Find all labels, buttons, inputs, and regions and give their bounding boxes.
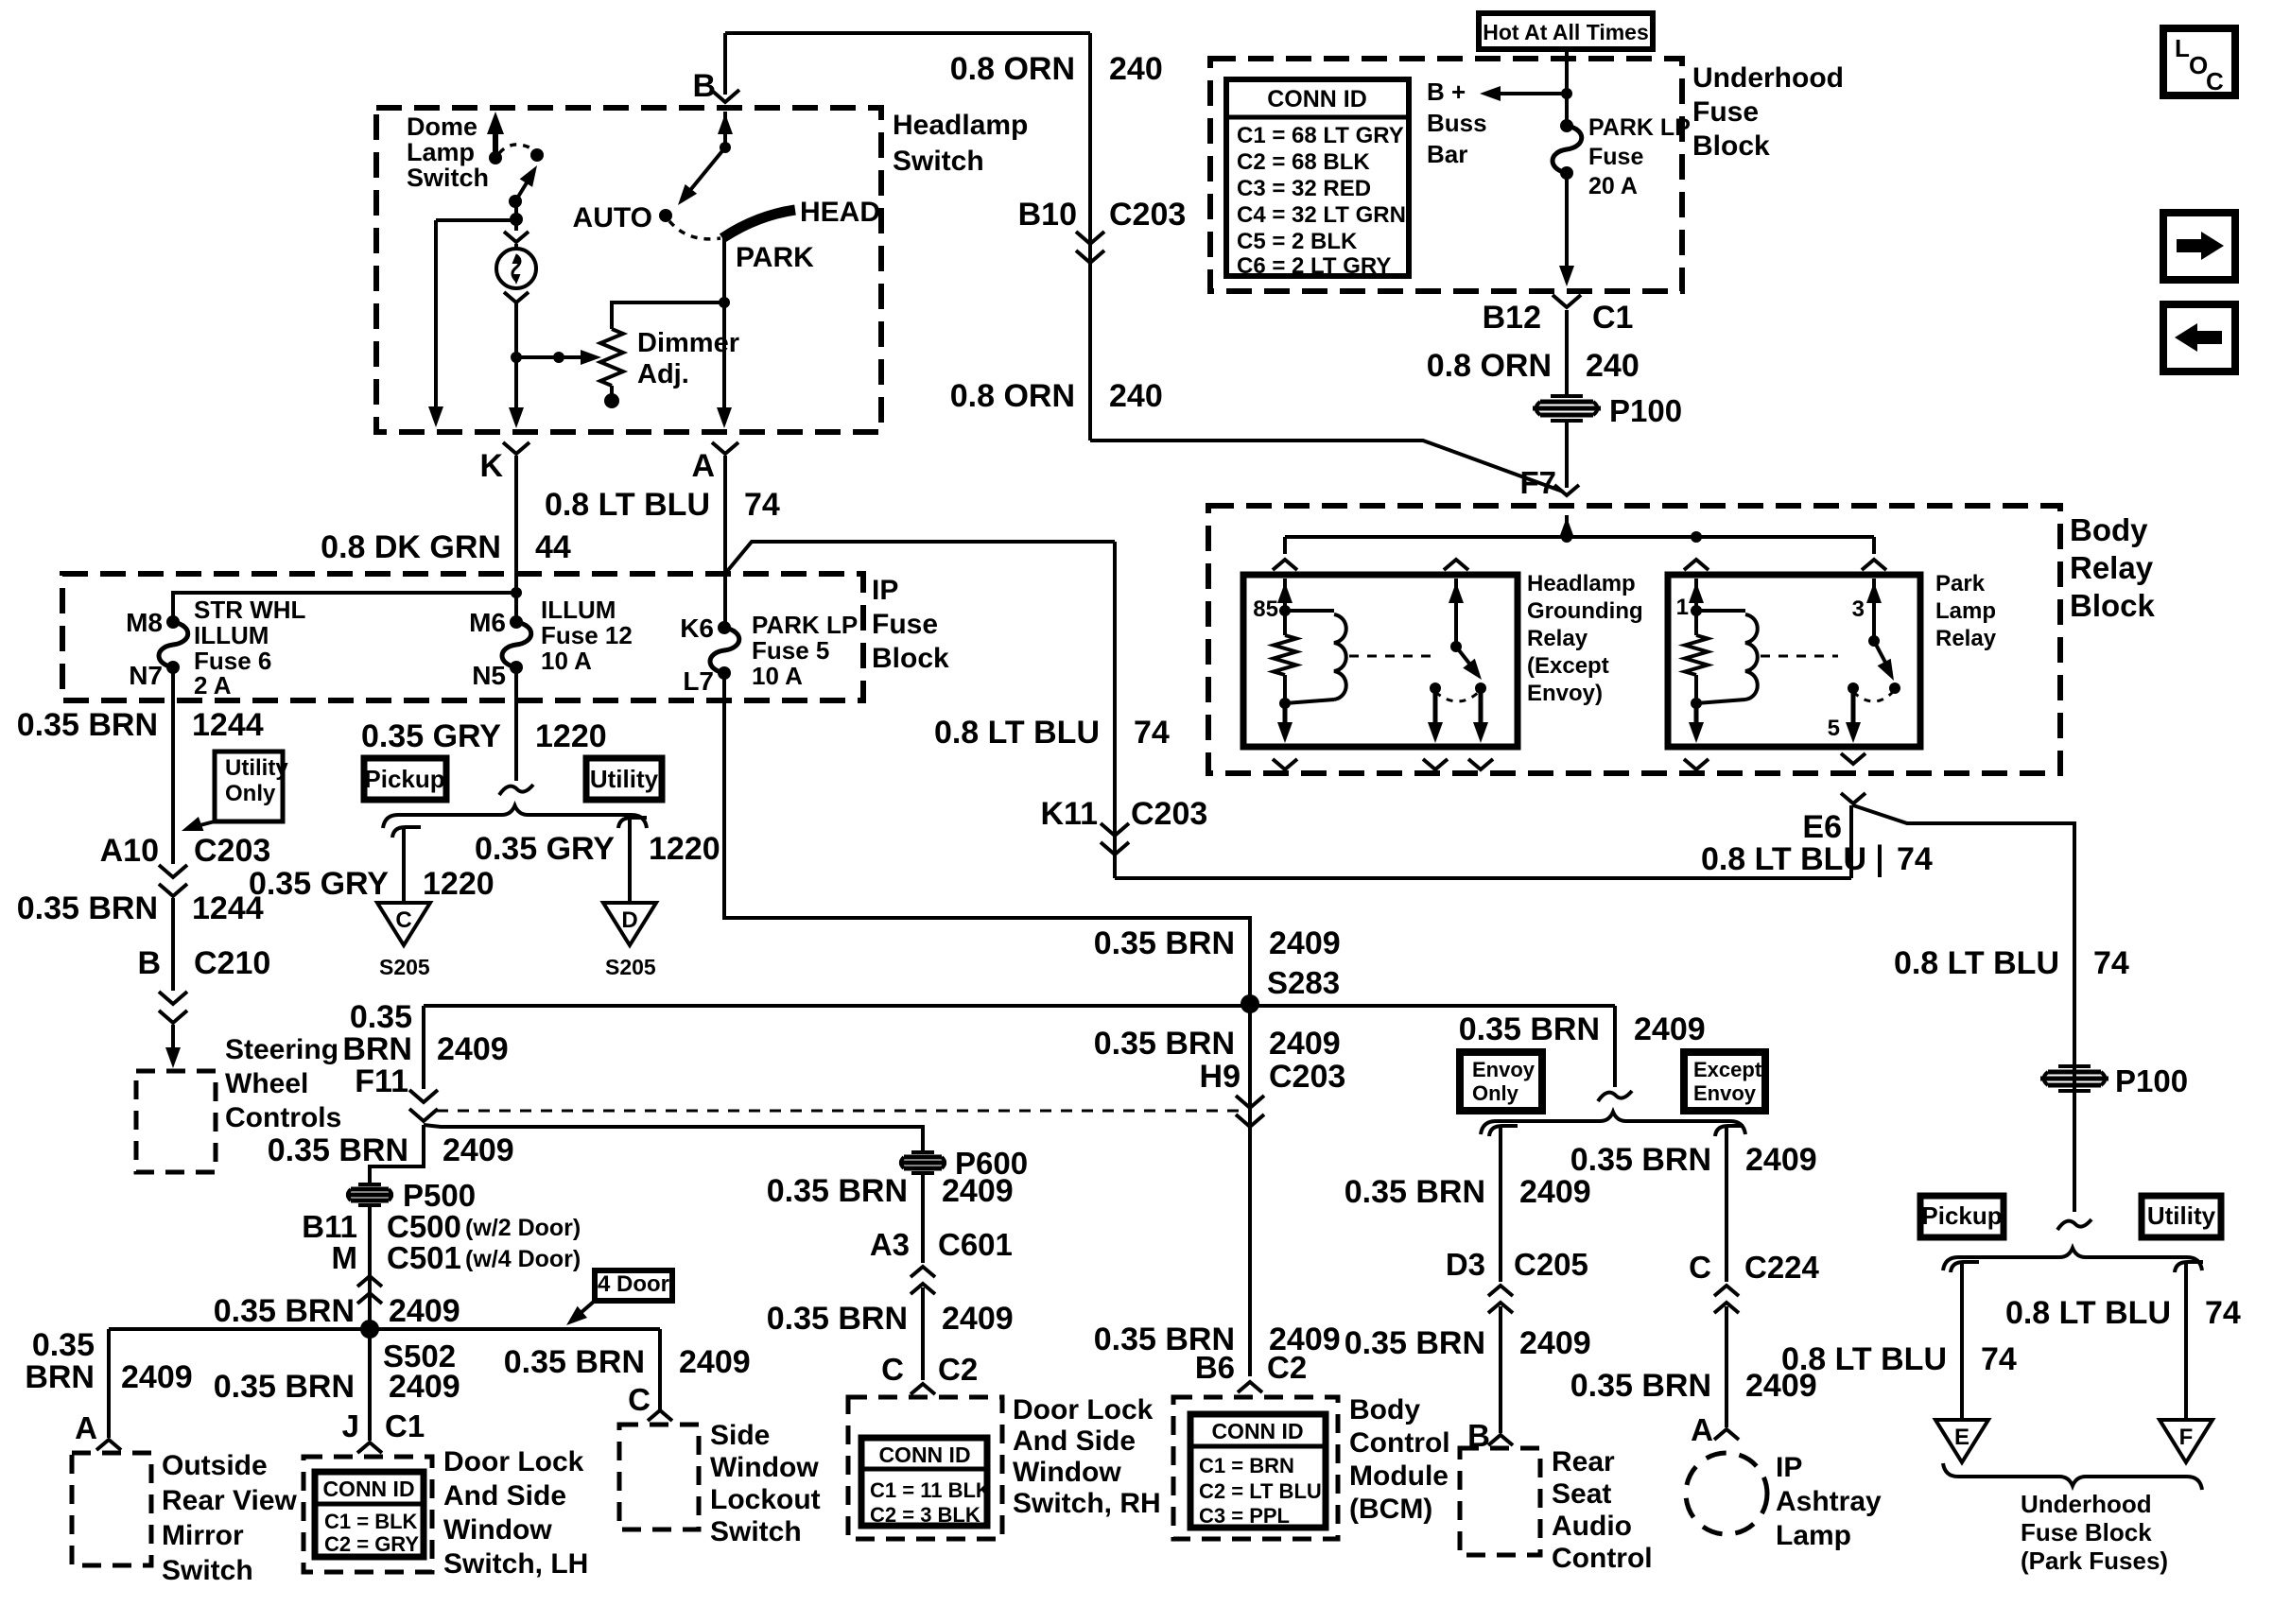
svg-text:Switch, RH: Switch, RH: [1013, 1488, 1161, 1519]
wire: junction left to K-return branch: [436, 218, 516, 222]
svg-text:F11: F11: [355, 1063, 408, 1099]
svg-text:Wheel: Wheel: [225, 1068, 308, 1099]
wire: ORN to F7 diagonal: [1090, 441, 1563, 492]
svg-text:Window: Window: [710, 1452, 819, 1483]
svg-text:C1: C1: [385, 1408, 425, 1443]
svg-text:AUTO: AUTO: [573, 202, 652, 233]
switch blade B to AUTO: [683, 147, 725, 199]
switch common chevron headlamp relay: [1444, 560, 1468, 570]
wire: lamp down to K exit: [514, 302, 518, 423]
svg-text:S205: S205: [379, 955, 430, 979]
wire: B12 to P100: [1565, 310, 1569, 397]
svg-text:Relay: Relay: [2070, 550, 2154, 585]
svg-text:3: 3: [1852, 596, 1865, 622]
node: junction on K wire: [511, 587, 522, 598]
svg-text:C: C: [628, 1382, 651, 1417]
svg-text:0.35 BRN: 0.35 BRN: [268, 1132, 408, 1168]
wire: A10 to B C210: [171, 898, 175, 991]
wire: K down to IP fuse block: [514, 456, 518, 622]
svg-text:0.8 ORN: 0.8 ORN: [950, 378, 1075, 414]
node: bus junction park relay coil: [1691, 531, 1702, 543]
svg-text:44: 44: [535, 529, 571, 565]
svg-text:Side: Side: [710, 1420, 770, 1451]
steering wheel controls dashed box: [136, 1071, 216, 1172]
svg-text:A: A: [75, 1410, 97, 1445]
svg-text:Utility: Utility: [590, 765, 659, 793]
svg-text:B10: B10: [1018, 197, 1077, 233]
svg-text:Switch: Switch: [710, 1516, 802, 1547]
svg-text:C3 = 32 RED: C3 = 32 RED: [1237, 176, 1371, 201]
svg-text:Pickup: Pickup: [364, 765, 444, 793]
svg-text:Headlamp: Headlamp: [1527, 571, 1636, 596]
dome lamp fixed contact dot: [530, 148, 544, 162]
headlamp grounding relay box: [1243, 575, 1518, 747]
wire: S502 down to J: [368, 1329, 372, 1441]
svg-text:Body: Body: [1349, 1394, 1420, 1425]
terminal K below headlamp switch: [503, 442, 529, 454]
svg-text:0.35 BRN: 0.35 BRN: [214, 1293, 355, 1329]
wire: S283 right arm down: [1613, 1006, 1617, 1087]
fuse PARK LP 20A: [1560, 119, 1573, 132]
door lock LH dashed box: [304, 1457, 432, 1572]
svg-text:Adj.: Adj.: [637, 359, 689, 389]
svg-text:Dome: Dome: [407, 112, 477, 141]
svg-text:L7: L7: [683, 666, 714, 696]
wire: coil ground arrow: [1283, 705, 1288, 735]
svg-text:2 A: 2 A: [194, 671, 232, 700]
node: bus junction F7: [1561, 531, 1572, 543]
wire: D3 down to rear seat audio: [1499, 1306, 1502, 1433]
svg-text:C2: C2: [938, 1352, 978, 1387]
wire: envoy-only branch down: [1499, 1138, 1502, 1282]
svg-text:2409: 2409: [121, 1359, 193, 1395]
wire: B vertical into headlamp switch: [723, 33, 727, 95]
node S283 splice dot: [1241, 994, 1259, 1013]
svg-text:74: 74: [2205, 1295, 2241, 1331]
svg-text:0.8 ORN: 0.8 ORN: [1427, 348, 1552, 384]
svg-text:Mirror: Mirror: [162, 1520, 244, 1551]
triangle F: [2160, 1420, 2212, 1462]
svg-text:Buss: Buss: [1427, 109, 1487, 137]
connector P100 (upper): [1540, 400, 1593, 405]
park relay switch blade: [1874, 641, 1891, 673]
svg-text:0.35 BRN: 0.35 BRN: [17, 707, 158, 743]
svg-text:C1 = 68 LT GRY: C1 = 68 LT GRY: [1237, 123, 1404, 148]
svg-text:N5: N5: [472, 661, 506, 690]
svg-text:H9: H9: [1200, 1059, 1241, 1095]
svg-text:Window: Window: [1013, 1457, 1121, 1488]
Hot At All Times box: [1479, 13, 1653, 49]
svg-text:0.35 BRN: 0.35 BRN: [1345, 1174, 1485, 1210]
svg-text:0.8 LT BLU: 0.8 LT BLU: [1781, 1341, 1947, 1377]
connector B12 C1: [1553, 295, 1581, 307]
wire: utility branch down: [628, 829, 632, 903]
svg-text:Underhood: Underhood: [2021, 1490, 2152, 1518]
svg-text:Pickup: Pickup: [1921, 1201, 2002, 1230]
wire: utility branch hook: [618, 818, 647, 828]
svg-text:C205: C205: [1514, 1247, 1588, 1282]
svg-text:(w/2 Door): (w/2 Door): [465, 1215, 581, 1241]
wire: NO contact down arrow: [1433, 690, 1438, 735]
Pickup box (left): [364, 758, 446, 800]
switch common entry arrow: [1454, 579, 1458, 645]
wire: N5 down to splice break: [514, 667, 518, 781]
LOC box: [2163, 28, 2235, 95]
pin 1 entry arrow: [1694, 579, 1698, 609]
break symbol right feed: [2057, 1219, 2091, 1230]
svg-text:B6: B6: [1195, 1350, 1235, 1385]
wire: park coil ground arrow: [1694, 705, 1699, 735]
chevrons below headlamp relay switch: [1423, 759, 1448, 769]
svg-text:C210: C210: [194, 945, 270, 981]
wire: E6 down to long LT BLU wire: [1849, 805, 1853, 878]
svg-text:CONN ID: CONN ID: [322, 1477, 414, 1501]
svg-text:C501: C501: [387, 1240, 461, 1275]
svg-text:Lamp: Lamp: [1776, 1520, 1851, 1551]
svg-text:B +: B +: [1427, 78, 1466, 106]
svg-text:2409: 2409: [442, 1132, 514, 1168]
svg-text:2409: 2409: [1519, 1174, 1591, 1210]
node: coil top dot: [1279, 605, 1291, 616]
svg-text:2409: 2409: [1519, 1325, 1591, 1361]
svg-text:74: 74: [1134, 715, 1170, 751]
svg-text:0.35 GRY: 0.35 GRY: [361, 718, 501, 754]
wire: illum feed to STR WHL fuse: [173, 593, 516, 622]
wire: F branch hook: [2175, 1262, 2203, 1272]
svg-text:P100: P100: [2115, 1063, 2188, 1098]
svg-text:C2: C2: [1267, 1350, 1307, 1385]
svg-text:CONN ID: CONN ID: [1211, 1419, 1303, 1443]
splice brace park fuse feeds: [1943, 1248, 2202, 1270]
svg-text:Switch: Switch: [162, 1555, 253, 1586]
svg-text:B11: B11: [302, 1209, 357, 1244]
wire: K11 vertical: [1113, 542, 1117, 878]
svg-text:CONN ID: CONN ID: [878, 1443, 970, 1467]
svg-text:10 A: 10 A: [541, 647, 592, 675]
svg-text:Control: Control: [1552, 1543, 1653, 1574]
dashed arc dome lamp: [499, 145, 533, 153]
pin 1 chevron: [1684, 560, 1709, 570]
wire: bus stub to pin3: [1872, 537, 1876, 554]
Pickup box (right): [1920, 1196, 2004, 1237]
svg-text:C203: C203: [1109, 197, 1186, 233]
park lamp relay box: [1668, 575, 1920, 747]
svg-text:0.35: 0.35: [32, 1327, 95, 1363]
wire: envoy-only branch hook: [1489, 1126, 1518, 1136]
svg-text:CONN ID: CONN ID: [1267, 86, 1367, 112]
svg-text:Door Lock: Door Lock: [1013, 1394, 1154, 1425]
wire: E6 to right edge and down to P100 lower: [1853, 805, 2074, 1212]
svg-text:0.8 LT BLU: 0.8 LT BLU: [2005, 1295, 2171, 1331]
chevron below park relay pin5: [1841, 753, 1865, 764]
dashed arc between contacts: [1435, 692, 1479, 701]
svg-text:1220: 1220: [535, 718, 607, 754]
CONN ID table RH: [861, 1438, 987, 1526]
svg-text:Window: Window: [443, 1514, 552, 1546]
svg-text:C6 = 2 LT GRY: C6 = 2 LT GRY: [1237, 253, 1391, 279]
wire: E branch down: [1960, 1274, 1964, 1420]
park relay coil winding: [1696, 609, 1745, 613]
svg-text:STR WHL: STR WHL: [194, 596, 306, 624]
svg-text:2409: 2409: [1634, 1011, 1706, 1047]
wire: into steering wheel controls: [171, 1025, 175, 1063]
fuse ILLUM Fuse 12: [510, 615, 523, 629]
wire: P600 down: [921, 1175, 925, 1263]
svg-text:0.8 DK GRN: 0.8 DK GRN: [321, 529, 501, 565]
svg-text:1220: 1220: [423, 866, 495, 902]
svg-text:0.35 BRN: 0.35 BRN: [1094, 1026, 1235, 1062]
svg-text:A10: A10: [100, 833, 159, 869]
svg-text:E6: E6: [1802, 809, 1842, 845]
wire: except-envoy branch hook: [1715, 1126, 1744, 1136]
wire: relay feed bus: [1285, 535, 1874, 539]
svg-text:Underhood: Underhood: [1692, 62, 1844, 94]
svg-text:Bar: Bar: [1427, 140, 1467, 168]
wire: lamp bottom chevron: [504, 292, 529, 302]
wire: dimmer wiper arrow: [516, 355, 590, 359]
wire: B feed top horizontal to B10 column: [725, 31, 1090, 35]
svg-text:2409: 2409: [942, 1173, 1014, 1209]
svg-text:Dimmer: Dimmer: [637, 328, 739, 358]
svg-text:Headlamp: Headlamp: [893, 110, 1028, 141]
dashed actuate link (park relay): [1761, 655, 1838, 658]
break symbol envoy feed: [1598, 1091, 1632, 1101]
svg-text:B12: B12: [1483, 300, 1541, 336]
svg-text:240: 240: [1109, 51, 1163, 87]
svg-text:PARK: PARK: [736, 242, 814, 273]
svg-text:Lockout: Lockout: [710, 1484, 821, 1515]
svg-text:Grounding: Grounding: [1527, 598, 1643, 624]
svg-text:(Except: (Except: [1527, 653, 1609, 679]
wire: dome lamp blade to junction: [514, 201, 518, 219]
svg-text:4 Door: 4 Door: [598, 1271, 669, 1297]
wire: pin 5 down arrow: [1851, 690, 1856, 735]
svg-text:C5 = 2 BLK: C5 = 2 BLK: [1237, 229, 1358, 254]
break symbol on N5 wire: [499, 785, 533, 795]
svg-text:C: C: [2206, 67, 2224, 95]
svg-text:0.8 LT BLU: 0.8 LT BLU: [1701, 841, 1866, 877]
wire: A down to K6 fuse: [723, 456, 727, 628]
arrow 4 Door: [573, 1301, 595, 1320]
svg-text:Audio: Audio: [1552, 1511, 1632, 1542]
node: park coil bottom dot: [1691, 698, 1702, 709]
svg-text:L: L: [2175, 34, 2190, 62]
svg-text:BRN: BRN: [25, 1359, 95, 1395]
wire: pickup branch hook: [392, 827, 421, 838]
wire: E branch hook: [1951, 1262, 1979, 1272]
underbrace park fuses: [1943, 1463, 2202, 1490]
svg-text:Ashtray: Ashtray: [1776, 1486, 1882, 1517]
svg-text:A: A: [691, 448, 715, 484]
svg-text:1: 1: [1676, 595, 1689, 620]
fuse STR WHL ILLUM Fuse 6: [166, 615, 180, 629]
triangle E: [1935, 1420, 1988, 1462]
CONN ID table LH: [315, 1472, 424, 1557]
svg-text:C1 = BRN: C1 = BRN: [1199, 1454, 1294, 1477]
svg-text:Utility: Utility: [225, 755, 288, 781]
Utility box (right): [2142, 1196, 2221, 1237]
svg-text:C: C: [881, 1352, 904, 1387]
wire: C224 down to ashtray lamp: [1725, 1306, 1728, 1427]
svg-text:2409: 2409: [679, 1344, 751, 1380]
svg-text:74: 74: [1897, 841, 1933, 877]
svg-text:C1: C1: [1592, 300, 1633, 336]
svg-text:0.35 GRY: 0.35 GRY: [249, 866, 389, 902]
relay switch blade: [1456, 647, 1477, 673]
svg-text:240: 240: [1586, 348, 1640, 384]
wire: F11 to P600 branch: [424, 1125, 923, 1151]
svg-text:Module: Module: [1349, 1460, 1449, 1492]
IP ashtray lamp dashed circle: [1686, 1453, 1767, 1534]
svg-text:C203: C203: [1269, 1059, 1345, 1095]
svg-text:Switch: Switch: [893, 146, 984, 177]
svg-text:P500: P500: [403, 1178, 476, 1213]
arrow right box: [2163, 213, 2235, 280]
svg-text:240: 240: [1109, 378, 1163, 414]
svg-text:Switch: Switch: [407, 164, 489, 192]
svg-text:Hot At All Times: Hot At All Times: [1483, 20, 1649, 44]
wire: S283 down to BCM: [1248, 1004, 1252, 1376]
svg-text:0.8 ORN: 0.8 ORN: [950, 51, 1075, 87]
BCM dashed box: [1173, 1397, 1338, 1539]
svg-text:E: E: [1954, 1425, 1969, 1450]
svg-text:Park: Park: [1935, 571, 1986, 596]
svg-text:74: 74: [1981, 1341, 2017, 1377]
node: contact dots: [1430, 682, 1441, 694]
CONN ID table BCM: [1190, 1414, 1326, 1528]
svg-text:Control: Control: [1349, 1427, 1450, 1459]
node: dome branch junction: [510, 213, 523, 226]
svg-text:C601: C601: [938, 1227, 1013, 1262]
relay coil resistor: [1274, 635, 1296, 675]
wire: PARK contact down to A terminal: [722, 236, 726, 423]
svg-text:Only: Only: [225, 781, 276, 806]
svg-text:A: A: [1691, 1412, 1713, 1447]
terminal A below headlamp switch: [712, 442, 738, 454]
svg-text:(w/4 Door): (w/4 Door): [465, 1246, 581, 1272]
terminal E6: [1841, 793, 1865, 803]
underhood fuse block dashed box: [1210, 59, 1682, 291]
node: dimmer tap dot: [511, 352, 522, 363]
svg-text:C203: C203: [194, 833, 270, 869]
svg-text:P100: P100: [1609, 393, 1682, 428]
svg-text:C1 = 11 BLK: C1 = 11 BLK: [870, 1478, 991, 1502]
svg-text:85: 85: [1253, 596, 1278, 622]
wire: S502 left branch down: [107, 1329, 111, 1438]
svg-text:F: F: [2179, 1425, 2194, 1450]
svg-text:And Side: And Side: [1013, 1425, 1136, 1457]
svg-text:Envoy): Envoy): [1527, 681, 1603, 706]
wire: dimmer top lead to PARK wire: [612, 302, 724, 329]
wire: F branch down: [2184, 1274, 2188, 1420]
svg-text:C500: C500: [387, 1209, 461, 1244]
svg-text:Envoy: Envoy: [1472, 1058, 1536, 1081]
svg-text:C203: C203: [1131, 796, 1207, 832]
svg-text:0.35 BRN: 0.35 BRN: [767, 1301, 908, 1337]
outside rear view mirror switch dashed box: [72, 1453, 151, 1565]
wire: F11 to P500: [370, 1125, 424, 1183]
pin 3 entry arrow: [1872, 579, 1876, 639]
svg-text:ILLUM: ILLUM: [541, 596, 616, 624]
wire: left branch down to box edge with arrow: [434, 220, 438, 422]
svg-text:N7: N7: [129, 661, 163, 690]
rear seat audio control dashed box: [1460, 1448, 1540, 1555]
svg-text:Door Lock: Door Lock: [443, 1446, 584, 1477]
ground triangle C: [377, 903, 430, 945]
svg-text:(Park Fuses): (Park Fuses): [2021, 1546, 2168, 1575]
svg-text:J: J: [342, 1408, 359, 1443]
illumination lamp circle: [496, 249, 536, 288]
svg-text:1244: 1244: [192, 707, 264, 743]
svg-text:74: 74: [2093, 945, 2129, 981]
node: park coil top dot: [1691, 605, 1702, 616]
svg-text:0.35 BRN: 0.35 BRN: [1459, 1011, 1600, 1047]
svg-text:(BCM): (BCM): [1349, 1494, 1432, 1525]
svg-text:C4 = 32 LT GRN: C4 = 32 LT GRN: [1237, 202, 1406, 228]
svg-text:1220: 1220: [649, 831, 720, 867]
svg-text:0.35 BRN: 0.35 BRN: [17, 890, 158, 926]
svg-text:Envoy: Envoy: [1693, 1081, 1757, 1105]
svg-text:1244: 1244: [192, 890, 264, 926]
wire: N7 down through edge: [171, 667, 175, 864]
node: coil bottom dot: [1279, 698, 1291, 709]
node S502 splice dot: [360, 1320, 379, 1339]
dome lamp blade with arrow: [515, 172, 533, 201]
svg-text:C224: C224: [1744, 1250, 1820, 1285]
svg-text:0.35 BRN: 0.35 BRN: [1345, 1325, 1485, 1361]
svg-text:C2 = 3 BLK: C2 = 3 BLK: [870, 1503, 980, 1527]
svg-text:0.8 LT BLU: 0.8 LT BLU: [1894, 945, 2059, 981]
svg-text:0.35: 0.35: [350, 999, 412, 1035]
svg-text:C3 = PPL: C3 = PPL: [1199, 1504, 1290, 1528]
svg-text:Rear View: Rear View: [162, 1485, 298, 1516]
svg-text:Fuse: Fuse: [1588, 144, 1643, 170]
svg-text:B: B: [692, 68, 716, 104]
svg-text:2409: 2409: [389, 1369, 460, 1405]
dashed arc AUTO to PARK: [669, 221, 720, 239]
svg-text:B: B: [137, 945, 161, 981]
svg-text:0.35 BRN: 0.35 BRN: [214, 1369, 355, 1405]
svg-text:Rear: Rear: [1552, 1446, 1615, 1477]
svg-text:0.35 BRN: 0.35 BRN: [504, 1344, 645, 1380]
ip fuse block dashed box: [62, 574, 863, 700]
svg-text:Fuse: Fuse: [1692, 96, 1759, 128]
svg-text:Steering: Steering: [225, 1034, 338, 1065]
wire: P100 to F7: [1565, 421, 1569, 488]
PARK-HEAD contact arc (thick): [722, 210, 795, 238]
svg-text:2409: 2409: [942, 1301, 1014, 1337]
wire: C601 down to C2: [921, 1287, 925, 1380]
svg-text:Outside: Outside: [162, 1450, 268, 1481]
Utility box (left): [586, 758, 662, 800]
connector P100 (lower): [2048, 1070, 2101, 1075]
wire: P500 to S502: [368, 1207, 372, 1329]
svg-text:2409: 2409: [389, 1293, 460, 1329]
svg-text:5: 5: [1828, 716, 1840, 741]
svg-text:And Side: And Side: [443, 1480, 566, 1512]
svg-text:PARK LP: PARK LP: [752, 611, 858, 639]
wire: B inside box with entry arrow: [723, 112, 727, 147]
wire: pickup branch down: [402, 839, 406, 903]
wire: long LT BLU horizontal to E6 branch: [1115, 876, 1851, 880]
svg-text:Fuse 12: Fuse 12: [541, 621, 633, 649]
svg-text:M: M: [332, 1240, 358, 1275]
svg-text:0.35 BRN: 0.35 BRN: [1570, 1368, 1711, 1404]
svg-text:Block: Block: [2070, 588, 2156, 623]
node: junction dimmer feed: [719, 297, 730, 308]
wire: ORN B10 vertical: [1088, 33, 1092, 441]
svg-text:C2 = LT BLU: C2 = LT BLU: [1199, 1479, 1322, 1503]
